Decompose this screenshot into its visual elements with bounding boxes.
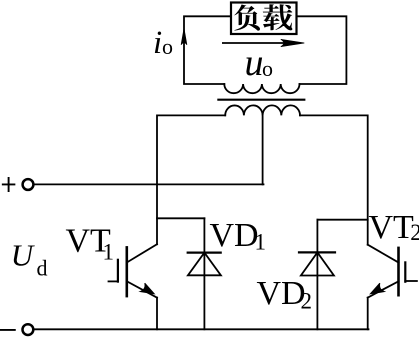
load box: [231, 3, 297, 35]
label - (minus sign): [0, 329, 15, 331]
wire: center tap to + rail: [262, 115, 264, 184]
transistor VT1 (IGBT): [109, 244, 158, 329]
svg-text:o: o: [162, 34, 173, 59]
wire: primary left lead down to VT1 collector node: [157, 115, 225, 244]
svg-text:VD: VD: [257, 275, 306, 312]
wire: VD2 vertical: [316, 220, 318, 330]
svg-text:2: 2: [410, 220, 419, 245]
transformer core: [218, 99, 304, 101]
wire: VD2 branch from VT2 collector node: [317, 219, 367, 221]
svg-text:u: u: [245, 42, 264, 84]
diode VD2: [299, 252, 335, 275]
svg-text:1: 1: [255, 230, 267, 255]
current arrow i_o (arrowhead on left loop wire): [181, 28, 187, 45]
wire: VD1 vertical: [203, 218, 205, 329]
svg-text:1: 1: [103, 240, 115, 265]
terminal + (circle): [23, 179, 34, 190]
svg-text:U: U: [11, 237, 36, 272]
svg-text:d: d: [37, 256, 48, 281]
svg-text:VT: VT: [369, 209, 415, 246]
label + (plus sign): [3, 178, 15, 191]
transformer T1 primary winding: [225, 105, 300, 115]
svg-text:o: o: [262, 56, 273, 81]
diode VD1: [188, 253, 221, 276]
transistor VT2 (IGBT): [368, 245, 417, 330]
wire: + rail: [35, 183, 264, 185]
wire: load loop right (box to transformer secondary right): [297, 16, 347, 84]
wire: VD1 branch from VT1 collector node: [157, 217, 204, 219]
svg-text:VD: VD: [210, 217, 259, 254]
wire: primary right lead down to VT2 collector node: [300, 115, 368, 244]
voltage arrow u_o: [223, 42, 298, 44]
svg-text:i: i: [153, 25, 162, 61]
svg-text:2: 2: [301, 289, 313, 314]
label 负载 (load): [234, 4, 292, 30]
wire: negative rail: [35, 328, 369, 330]
wire: load loop left (box to transformer secondary left): [184, 16, 231, 84]
terminal - (circle): [23, 324, 34, 335]
transformer T1 secondary winding: [224, 84, 299, 93]
